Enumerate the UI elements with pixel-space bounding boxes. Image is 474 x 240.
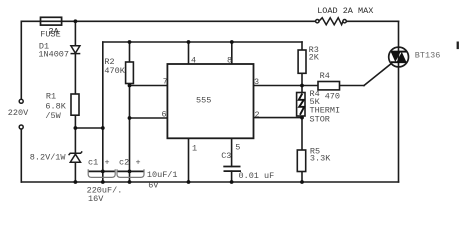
wire node row to c1 column xyxy=(75,127,102,129)
wire thermistor to R5 xyxy=(301,116,303,150)
svg-text:8.2V/1W: 8.2V/1W xyxy=(30,152,67,162)
svg-text:1N4007: 1N4007 xyxy=(38,50,69,60)
node rail R5 xyxy=(300,180,304,184)
wire R3 to pin3 node xyxy=(301,73,303,92)
node vcc rail / R2 xyxy=(128,40,132,44)
node rail pin1 xyxy=(187,180,191,184)
svg-text:BT136: BT136 xyxy=(415,51,441,61)
node rail c2 xyxy=(128,180,132,184)
mark I xyxy=(457,42,459,50)
wire pin5 to C3 xyxy=(231,138,233,166)
wire left input column upper xyxy=(20,21,22,99)
svg-text:3.3K: 3.3K xyxy=(310,153,331,163)
svg-text:1: 1 xyxy=(192,144,197,154)
zener diode 8.2V xyxy=(69,151,83,162)
wire top rail right segment xyxy=(346,20,399,22)
resistor R1 xyxy=(71,94,79,115)
svg-text:470K: 470K xyxy=(104,66,125,76)
wire C3 to bottom rail xyxy=(231,171,233,182)
svg-text:0.01 uF: 0.01 uF xyxy=(239,171,275,181)
op-amp/timer IC U1 555 box xyxy=(167,64,253,138)
svg-text:c1: c1 xyxy=(88,158,98,168)
svg-text:R4: R4 xyxy=(320,71,330,81)
wire pin6 row xyxy=(130,117,168,119)
svg-text:c2: c2 xyxy=(119,158,129,168)
svg-text:16V: 16V xyxy=(88,194,104,204)
capacitor C3 xyxy=(223,167,241,172)
wire left input column lower xyxy=(20,129,22,182)
wire vcc rail xyxy=(103,41,302,43)
wire pin7 row xyxy=(130,85,168,87)
node vcc rail / pin8 xyxy=(230,40,234,44)
load terminal circle right xyxy=(343,20,346,23)
node pin2 / thermistor xyxy=(300,116,304,120)
node pin6 / R2 xyxy=(128,116,132,120)
svg-text:6: 6 xyxy=(162,110,167,120)
capacitor C1 plate xyxy=(88,170,115,172)
svg-text:STOR: STOR xyxy=(310,115,330,125)
load terminal circle left xyxy=(316,20,319,23)
node pin3 / R3 xyxy=(300,84,304,88)
svg-text:LOAD 2A MAX: LOAD 2A MAX xyxy=(317,6,373,16)
svg-text:R1: R1 xyxy=(46,92,56,102)
wire bottom rail xyxy=(21,181,398,183)
svg-text:C3: C3 xyxy=(221,151,231,161)
svg-text:7: 7 xyxy=(163,77,168,87)
resistor R3 xyxy=(298,50,306,73)
wire pin8 stub xyxy=(231,42,233,64)
thermistor zigzag xyxy=(299,94,304,115)
capacitor C2 plate xyxy=(117,170,144,172)
node zener top xyxy=(74,126,78,130)
fuse F1 xyxy=(41,17,62,25)
node pin7 / R2 xyxy=(128,84,132,88)
wire pin3 row xyxy=(254,85,319,87)
diode D1 xyxy=(71,46,81,54)
node vcc rail / pin4 xyxy=(187,40,191,44)
wire zener to bottom rail xyxy=(74,162,76,182)
svg-text:555: 555 xyxy=(196,96,211,106)
wire R2 column top xyxy=(129,42,131,62)
node c2 plate xyxy=(128,170,132,174)
svg-text:+: + xyxy=(105,158,110,168)
svg-text:5: 5 xyxy=(235,143,240,153)
svg-text:2A: 2A xyxy=(49,27,60,37)
svg-text:/5W: /5W xyxy=(45,111,61,121)
resistor R4 horizontal xyxy=(318,82,340,90)
wire c1 column xyxy=(102,42,104,182)
wire pin2 row xyxy=(254,117,303,119)
svg-text:470: 470 xyxy=(325,92,340,102)
capacitor C2 lower curved plate xyxy=(117,169,144,177)
wire pin1 stub xyxy=(188,138,190,182)
wire R2 column bottom through c2 xyxy=(129,84,131,183)
svg-text:+: + xyxy=(136,158,141,168)
wire R3 column top xyxy=(301,42,303,50)
svg-text:10uF/1: 10uF/1 xyxy=(147,170,178,180)
svg-text:220V: 220V xyxy=(8,108,29,118)
node rail c1 xyxy=(101,180,105,184)
svg-text:4: 4 xyxy=(191,55,196,65)
wire triac main column xyxy=(398,21,400,182)
wire D1 to R1 xyxy=(74,54,76,94)
wire gate diagonal xyxy=(364,63,392,85)
svg-text:2K: 2K xyxy=(309,53,320,63)
svg-text:3: 3 xyxy=(254,77,259,87)
triac Q1 circle xyxy=(389,47,409,67)
wire R5 to bottom rail xyxy=(301,172,303,183)
resistor R2 xyxy=(126,62,134,84)
node c1 top xyxy=(101,126,105,130)
input terminal lower xyxy=(19,125,23,129)
svg-text:8: 8 xyxy=(227,55,232,65)
node c1 plate xyxy=(101,170,105,174)
wire D1 column upper xyxy=(74,21,76,46)
capacitor C1 lower curved plate xyxy=(88,169,115,177)
input terminal upper xyxy=(19,99,23,103)
wire top rail left segment xyxy=(21,20,316,22)
wire R4 to gate corner xyxy=(340,85,365,87)
node top rail / D1 xyxy=(74,19,78,23)
load resistor zigzag xyxy=(319,18,343,25)
thermistor R4 box xyxy=(297,93,305,117)
resistor R5 xyxy=(297,150,305,172)
wire pin4 stub xyxy=(188,42,190,64)
svg-text:6V: 6V xyxy=(148,181,159,191)
node rail C3 xyxy=(230,180,234,184)
node rail zener xyxy=(74,180,78,184)
triac triangles xyxy=(391,52,407,62)
triac bars xyxy=(391,52,406,63)
wire R1 to zener xyxy=(74,115,76,154)
svg-text:2: 2 xyxy=(255,110,260,120)
